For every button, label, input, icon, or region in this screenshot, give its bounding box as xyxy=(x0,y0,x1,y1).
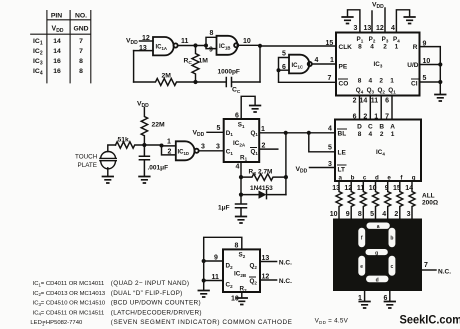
wire IC3 pin13 xyxy=(371,11,373,33)
svg-text:3: 3 xyxy=(407,211,411,218)
svg-text:LT: LT xyxy=(338,167,345,174)
svg-text:IC4: IC4 xyxy=(33,68,43,77)
resistor 22M xyxy=(141,108,147,146)
svg-text:5: 5 xyxy=(282,51,286,58)
wire IC1C output pin4 to PE pin1 xyxy=(312,63,336,65)
svg-text:6: 6 xyxy=(235,113,239,120)
svg-text:3: 3 xyxy=(328,161,332,168)
svg-text:VDD: VDD xyxy=(52,26,64,35)
svg-text:9: 9 xyxy=(423,41,427,48)
svg-text:IC2B: IC2B xyxy=(234,271,247,278)
wire IC1B output pin10 xyxy=(238,44,260,46)
svg-text:8: 8 xyxy=(358,44,362,51)
wire pin12 input xyxy=(140,40,154,42)
capacitor CC 1000pF xyxy=(196,78,261,87)
overline Q1bar xyxy=(251,147,257,149)
svg-text:7: 7 xyxy=(79,48,83,55)
svg-text:CD4510 OR MC14510: CD4510 OR MC14510 xyxy=(46,301,106,307)
overline BL xyxy=(338,128,347,130)
svg-text:14: 14 xyxy=(360,98,368,105)
svg-text:2: 2 xyxy=(379,78,383,85)
segment d xyxy=(366,276,389,284)
svg-text:10: 10 xyxy=(423,58,431,65)
capacitor 1uF xyxy=(236,204,247,216)
node junction D2 xyxy=(202,259,206,263)
nand gate IC1D xyxy=(176,141,199,160)
touch plate xyxy=(108,145,116,152)
svg-text:8: 8 xyxy=(79,58,83,65)
svg-text:12: 12 xyxy=(262,274,270,281)
svg-text:=: = xyxy=(41,301,45,307)
power VDD 22M top xyxy=(137,101,149,110)
IC U2B flipflop box xyxy=(223,249,260,292)
svg-text:S2: S2 xyxy=(239,252,246,259)
wire R2 pin10 to ground xyxy=(241,292,243,298)
wire VDD to LT xyxy=(310,167,336,169)
svg-text:IC2A: IC2A xyxy=(233,140,246,147)
svg-text:Q1: Q1 xyxy=(251,130,259,137)
resistor Ra 200 xyxy=(336,181,342,219)
svg-text:Q2: Q2 xyxy=(250,278,258,285)
IC3 preset labels P1-P4 xyxy=(357,36,401,51)
wire junction to IC1D xyxy=(144,145,175,155)
segment g xyxy=(366,249,388,256)
node junction C2 xyxy=(202,278,206,282)
segment e xyxy=(358,256,365,276)
wire Q4 to D xyxy=(359,96,361,120)
wire IC3 pin3 to ground xyxy=(348,10,360,33)
svg-text:D1: D1 xyxy=(226,130,234,137)
svg-text:P2: P2 xyxy=(369,36,376,43)
svg-text:4: 4 xyxy=(236,164,240,171)
wire IC3 pin5 CI xyxy=(420,81,441,83)
svg-text:CLK: CLK xyxy=(339,44,353,51)
node junction diode left xyxy=(239,193,243,197)
ground below CI junction xyxy=(439,82,441,94)
overline CI xyxy=(412,78,419,80)
svg-text:51k: 51k xyxy=(118,137,130,144)
segment f xyxy=(358,228,365,248)
wire Q1bar pin2 stub xyxy=(259,148,278,150)
svg-text:8: 8 xyxy=(358,131,362,138)
svg-text:1: 1 xyxy=(330,57,334,64)
svg-text:D2: D2 xyxy=(226,263,234,270)
svg-text:5: 5 xyxy=(423,75,427,82)
svg-text:CO: CO xyxy=(339,81,349,88)
ground left rail xyxy=(198,291,209,298)
svg-text:(DUAL “D” FLIP-FLOP): (DUAL “D” FLIP-FLOP) xyxy=(111,290,183,297)
wire display pin6 to ground xyxy=(389,291,391,301)
overline CO xyxy=(339,78,348,80)
svg-text:VDD: VDD xyxy=(296,166,308,175)
svg-text:ALL: ALL xyxy=(422,193,435,200)
power VDD to LT pin3 xyxy=(296,166,308,175)
resistor Rg 200 xyxy=(409,181,415,219)
watermark SeekIC.com xyxy=(400,314,460,326)
svg-text:4: 4 xyxy=(391,25,395,32)
wire IC1D output pin3 to C1 pin3 xyxy=(199,150,224,152)
svg-text:RS 2.7M: RS 2.7M xyxy=(249,169,273,176)
svg-text:6: 6 xyxy=(282,64,286,71)
svg-text:9: 9 xyxy=(214,255,218,262)
svg-text:IC1B: IC1B xyxy=(219,44,231,50)
svg-text:VDD: VDD xyxy=(372,2,384,11)
svg-text:.001μF: .001μF xyxy=(148,165,169,172)
svg-text:1μF: 1μF xyxy=(218,205,230,212)
wire D2 pin9 xyxy=(204,260,223,262)
svg-text:P4: P4 xyxy=(393,36,400,43)
node junction 22M/51k xyxy=(142,143,146,147)
svg-text:2: 2 xyxy=(262,143,266,150)
svg-text:P1: P1 xyxy=(357,36,364,43)
ground display pin6 xyxy=(385,302,396,309)
svg-text:N.C.: N.C. xyxy=(279,278,292,285)
supply note VDD = 4.5V xyxy=(315,318,349,325)
svg-text:(BCD UP/DOWN COUNTER): (BCD UP/DOWN COUNTER) xyxy=(111,300,201,307)
power VDD to D1 pin5 xyxy=(193,130,205,139)
ground display pin1 xyxy=(359,302,370,309)
wire Q1 pin1 to BL pin4 xyxy=(259,132,335,134)
svg-text:14: 14 xyxy=(53,38,61,45)
ground S1 xyxy=(250,106,261,113)
svg-text:PE: PE xyxy=(339,64,348,71)
wire Q2bar pin12 NC xyxy=(260,279,277,281)
svg-text:(LATCH/DECODER/DRIVER): (LATCH/DECODER/DRIVER) xyxy=(111,309,202,316)
wire Q1 to A xyxy=(391,96,393,120)
svg-text:13: 13 xyxy=(262,255,270,262)
svg-text:CD4011 OR MC14011: CD4011 OR MC14011 xyxy=(46,281,104,287)
segment c xyxy=(389,256,396,276)
nand gate IC1B xyxy=(217,36,239,55)
svg-text:1: 1 xyxy=(261,126,265,133)
parts list text xyxy=(30,281,105,326)
svg-text:9: 9 xyxy=(209,47,213,54)
svg-text:1000pF: 1000pF xyxy=(218,69,240,76)
ground .001uF xyxy=(139,177,150,184)
svg-text:P3: P3 xyxy=(382,36,389,43)
node junction Q1 to RS xyxy=(284,131,288,135)
svg-text:C: C xyxy=(368,124,373,131)
resistor RS 2.7M xyxy=(241,174,286,181)
svg-text:N.C.: N.C. xyxy=(279,260,292,267)
svg-text:IC4: IC4 xyxy=(376,149,385,156)
diode 1N4153 xyxy=(241,191,286,199)
wire R1 pin4 down xyxy=(240,162,242,204)
svg-text:N.C.: N.C. xyxy=(438,269,451,276)
svg-text:2M: 2M xyxy=(162,73,172,80)
resistor Rf 200 xyxy=(397,181,403,219)
IC3 Q labels xyxy=(356,78,396,95)
wire IC1C input to IC3 CO pin7 xyxy=(279,70,337,82)
svg-text:Q1: Q1 xyxy=(251,149,259,156)
svg-text:Q4: Q4 xyxy=(356,87,364,94)
svg-text:2: 2 xyxy=(353,98,357,105)
wire S1 pin6 to ground xyxy=(241,96,255,119)
svg-text:(SEVEN SEGMENT INDICATOR) COMM: (SEVEN SEGMENT INDICATOR) COMMON CATHODE xyxy=(111,319,293,326)
svg-text:PIN: PIN xyxy=(51,13,62,20)
ground 1uF xyxy=(236,217,247,224)
svg-text:=: = xyxy=(41,281,45,287)
svg-text:16: 16 xyxy=(53,68,61,75)
svg-text:8: 8 xyxy=(79,68,83,75)
svg-text:VDD = 4.5V: VDD = 4.5V xyxy=(315,318,349,325)
wire pin10 down to CC xyxy=(259,46,261,82)
svg-text:PLATE: PLATE xyxy=(78,162,97,169)
node junction Q1 to LE xyxy=(307,131,311,135)
segment b xyxy=(389,228,396,248)
svg-text:4: 4 xyxy=(368,78,372,85)
svg-text:R2: R2 xyxy=(240,286,248,293)
op VDD label IC1A pin12 xyxy=(126,35,150,52)
svg-text:12: 12 xyxy=(376,25,384,32)
svg-text:1: 1 xyxy=(390,78,394,85)
svg-text:IC3: IC3 xyxy=(33,58,43,67)
svg-text:10: 10 xyxy=(330,211,338,218)
svg-text:R: R xyxy=(413,44,418,51)
svg-text:14: 14 xyxy=(53,48,61,55)
wire VDD to D1 xyxy=(207,131,224,133)
node junction pin10 xyxy=(258,44,262,48)
svg-text:4: 4 xyxy=(370,44,374,51)
svg-text:10: 10 xyxy=(243,38,251,45)
svg-text:1: 1 xyxy=(395,44,399,51)
display LED1 seven segment xyxy=(333,219,422,292)
svg-text:2: 2 xyxy=(168,149,172,156)
svg-text:IC2: IC2 xyxy=(33,48,43,57)
svg-text:B: B xyxy=(379,124,384,131)
wire IC1C tied inputs xyxy=(279,58,290,71)
overline Q2bar xyxy=(250,276,256,278)
svg-text:A: A xyxy=(390,124,395,131)
svg-text:2: 2 xyxy=(380,131,384,138)
svg-text:a: a xyxy=(377,224,380,230)
svg-text:22M: 22M xyxy=(152,122,166,129)
svg-text:8: 8 xyxy=(358,78,362,85)
IC U2A flipflop box xyxy=(224,119,260,162)
svg-text:g: g xyxy=(375,250,378,256)
wire IC1A output pin11 xyxy=(178,45,196,47)
svg-text:IC3: IC3 xyxy=(374,61,383,68)
wire pin13 feedback vertical xyxy=(133,51,135,82)
svg-text:Q2: Q2 xyxy=(377,87,385,94)
display pin numbers top xyxy=(330,211,411,218)
svg-text:R1: R1 xyxy=(240,154,248,161)
svg-text:4: 4 xyxy=(382,211,386,218)
nand gate IC1C xyxy=(289,55,312,74)
overline LT xyxy=(338,164,347,166)
svg-text:5: 5 xyxy=(370,211,374,218)
ground touch plate xyxy=(103,177,114,184)
wire IC3 pin4 to ground xyxy=(396,10,409,33)
svg-text:1: 1 xyxy=(391,131,395,138)
wire Q2 to B xyxy=(380,96,382,120)
IC4 segment letters xyxy=(338,175,415,182)
svg-text:CI: CI xyxy=(411,81,418,88)
svg-text:11: 11 xyxy=(371,98,379,105)
wire CLK line to IC3 pin15 xyxy=(260,45,336,47)
svg-text:b: b xyxy=(390,235,393,241)
svg-text:200Ω: 200Ω xyxy=(422,200,438,207)
svg-text:VDD: VDD xyxy=(193,130,205,139)
svg-text:C2: C2 xyxy=(226,282,234,289)
wire diode right up to Q1 xyxy=(285,133,287,195)
svg-text:IC1A: IC1A xyxy=(156,45,168,51)
svg-text:4: 4 xyxy=(368,131,372,138)
svg-text:GND: GND xyxy=(73,26,88,33)
svg-text:4: 4 xyxy=(315,57,319,64)
svg-text:VDD: VDD xyxy=(126,38,138,47)
svg-text:c: c xyxy=(391,264,394,270)
wire pin13 input xyxy=(134,50,153,52)
resistor Rd 200 xyxy=(373,181,379,219)
svg-text:Q3: Q3 xyxy=(367,87,375,94)
nand gate IC1A xyxy=(153,37,178,55)
svg-text:VDD: VDD xyxy=(137,101,149,110)
svg-text:(QUAD 2− INPUT NAND): (QUAD 2− INPUT NAND) xyxy=(111,280,190,287)
svg-text:Q2: Q2 xyxy=(250,263,258,270)
wire display pin1 to ground xyxy=(364,291,366,301)
svg-text:7: 7 xyxy=(328,75,332,82)
resistor Rb 200 xyxy=(348,181,354,219)
resistor RC 1M xyxy=(192,46,199,83)
svg-text:16: 16 xyxy=(53,58,61,65)
svg-text:U/D: U/D xyxy=(407,62,419,69)
resistor 51k xyxy=(116,142,145,148)
svg-text:8: 8 xyxy=(358,211,362,218)
resistor Re 200 xyxy=(385,181,391,219)
svg-text:=: = xyxy=(41,310,45,316)
svg-text:3: 3 xyxy=(354,25,358,32)
power VDD label IC3 top xyxy=(372,2,384,11)
svg-text:Q1: Q1 xyxy=(388,87,396,94)
svg-text:1N4153: 1N4153 xyxy=(250,185,273,192)
node junction IC1A out xyxy=(193,43,197,47)
svg-text:9: 9 xyxy=(346,211,350,218)
node junction RS right xyxy=(284,175,288,179)
wire to IC1B inputs xyxy=(196,37,217,48)
svg-text:IC1D: IC1D xyxy=(178,150,190,156)
svg-text:15: 15 xyxy=(326,40,334,47)
svg-text:7: 7 xyxy=(79,38,83,45)
svg-text:CD4013 OR MC14013: CD4013 OR MC14013 xyxy=(46,291,106,297)
wire IC3 pin9 R xyxy=(420,47,441,82)
svg-text:7: 7 xyxy=(424,262,428,269)
svg-text:11: 11 xyxy=(181,38,189,45)
svg-text:HP5082-7740: HP5082-7740 xyxy=(46,320,83,326)
svg-text:2: 2 xyxy=(394,211,398,218)
svg-text:10: 10 xyxy=(231,296,239,303)
svg-text:C1: C1 xyxy=(226,149,234,156)
wire C2 pin11 xyxy=(204,280,223,282)
svg-text:=: = xyxy=(41,291,45,297)
svg-text:13: 13 xyxy=(364,25,372,32)
svg-text:LE: LE xyxy=(338,150,347,157)
svg-text:8: 8 xyxy=(235,243,239,250)
svg-text:d: d xyxy=(376,277,379,283)
wire display pin7 NC xyxy=(422,269,436,271)
label ALL 200 ohm xyxy=(422,193,438,207)
IC U3 counter box xyxy=(336,33,420,96)
ground at IC3 pin3 xyxy=(342,17,353,24)
IC4 pin numbers bottom xyxy=(332,185,413,192)
wire S2 pin8 loop to left rail xyxy=(204,237,242,290)
svg-text:2: 2 xyxy=(383,44,387,51)
wire IC3 pin10 U/D xyxy=(420,64,441,66)
svg-text:8: 8 xyxy=(210,30,214,37)
svg-text:CD4511 OR MC14511: CD4511 OR MC14511 xyxy=(46,310,104,316)
svg-text:3: 3 xyxy=(201,144,205,151)
svg-text:NO.: NO. xyxy=(75,13,87,20)
wire Q3 to C xyxy=(369,96,371,120)
svg-text:3: 3 xyxy=(216,144,220,151)
svg-text:e: e xyxy=(360,264,363,270)
svg-text:S1: S1 xyxy=(238,122,245,129)
wire Q2 pin13 NC xyxy=(260,261,277,263)
segment a xyxy=(367,223,390,231)
wire touch plate to ground xyxy=(107,168,109,176)
svg-text:1M: 1M xyxy=(199,58,209,65)
wire to LE pin5 xyxy=(309,133,335,152)
node junction RC bottom xyxy=(193,80,197,84)
svg-text:TOUCH: TOUCH xyxy=(75,153,98,160)
svg-text:5: 5 xyxy=(217,125,221,132)
ground R2 xyxy=(237,298,248,305)
node junction R1/RS xyxy=(239,175,243,179)
svg-text:SeekIC.com: SeekIC.com xyxy=(400,314,460,326)
resistor Rc2 200 xyxy=(360,181,366,219)
svg-text:IC1: IC1 xyxy=(33,38,43,47)
wire IC3 pin12 xyxy=(384,8,386,33)
resistor 2M xyxy=(134,79,196,86)
svg-text:5: 5 xyxy=(328,145,332,152)
svg-text:IC1C: IC1C xyxy=(292,63,304,69)
svg-text:11: 11 xyxy=(212,274,220,281)
svg-text:CC: CC xyxy=(232,87,241,95)
svg-text:BL: BL xyxy=(338,131,347,138)
svg-text:4: 4 xyxy=(328,126,332,133)
pin table xyxy=(31,11,91,83)
ground at IC3 pin4 xyxy=(404,17,415,24)
svg-text:6: 6 xyxy=(385,98,389,105)
IC U4 latch decoder box xyxy=(335,120,421,182)
svg-text:1: 1 xyxy=(167,139,171,146)
capacitor .001uF xyxy=(139,145,149,176)
svg-text:D: D xyxy=(357,124,362,131)
